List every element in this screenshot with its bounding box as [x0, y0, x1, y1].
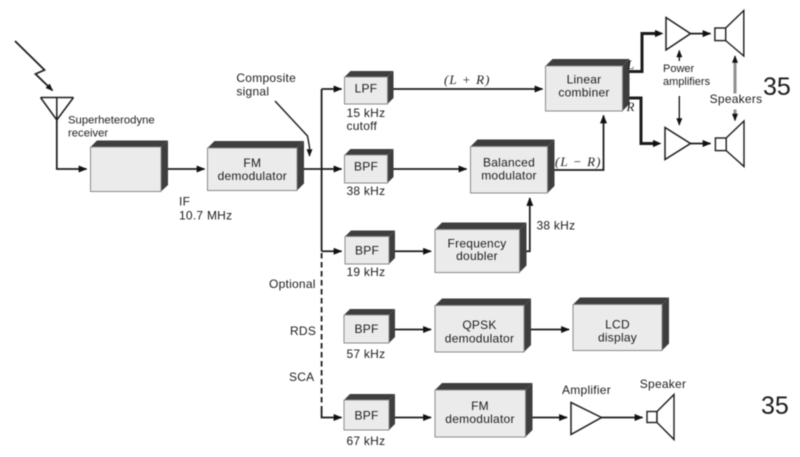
svg-text:demodulator: demodulator	[218, 169, 287, 183]
wire: combiner R output to bottom power amplifier	[630, 98, 654, 144]
svg-text:Balanced: Balanced	[483, 156, 535, 170]
svg-text:LCD: LCD	[605, 318, 630, 332]
wire: combiner L output to top power amplifier	[630, 34, 656, 72]
wire: composite bus vertical (solid part)	[321, 89, 323, 251]
svg-text:SCA: SCA	[289, 370, 314, 384]
arrowhead: L into top amp	[655, 30, 664, 37]
block: balanced modulator	[471, 140, 555, 194]
svg-text:35: 35	[763, 73, 791, 101]
wire: FM demodulator to BPF 38 kHz (through bus junction)	[304, 168, 342, 170]
svg-text:(L − R): (L − R)	[555, 154, 602, 169]
pointer: down arrow to bottom amplifier	[678, 96, 680, 125]
wire: bus to LPF	[322, 88, 342, 90]
speaker SCA	[647, 395, 674, 440]
svg-text:15 kHz: 15 kHz	[347, 106, 386, 120]
svg-text:Speaker: Speaker	[640, 377, 686, 391]
wire: bus to BPF 19 kHz	[322, 250, 342, 252]
svg-text:38 kHz: 38 kHz	[537, 219, 576, 233]
svg-text:10.7 MHz: 10.7 MHz	[179, 209, 232, 223]
wire: receiver to FM demodulator	[168, 168, 205, 170]
block: BPF 38 kHz	[345, 149, 394, 183]
arrowhead: R into bottom amp	[653, 140, 662, 147]
svg-text:35: 35	[761, 392, 789, 420]
svg-text:FM: FM	[471, 399, 489, 413]
wire: top amp to top speaker	[691, 33, 711, 35]
svg-text:Linear: Linear	[567, 73, 602, 87]
svg-text:signal: signal	[236, 85, 269, 99]
block: QPSK demodulator	[435, 299, 531, 353]
svg-text:RDS: RDS	[290, 324, 316, 338]
svg-text:Superheterodyne: Superheterodyne	[68, 115, 155, 127]
power amplifier bottom (triangle)	[665, 128, 691, 160]
block: BPF 67 kHz	[344, 394, 395, 430]
wire: LPF to linear combiner (L + R)	[394, 88, 543, 90]
wire: BPF 57 kHz to QPSK demodulator	[395, 329, 431, 331]
block: FM demodulator U1	[208, 141, 305, 191]
block: SCA FM demodulator	[435, 383, 533, 437]
svg-text:doubler: doubler	[456, 249, 498, 263]
power amplifier top (triangle)	[666, 18, 691, 51]
svg-text:19 kHz: 19 kHz	[347, 265, 386, 279]
speaker top	[715, 11, 744, 57]
svg-text:QPSK: QPSK	[462, 318, 496, 332]
svg-text:BPF: BPF	[355, 244, 379, 258]
block: LCD display	[573, 298, 669, 351]
pointer: composite signal callout arrow	[275, 101, 310, 156]
wire: dashed bus arrow into BPF 67 kHz	[330, 417, 342, 419]
wire: antenna to receiver	[57, 120, 87, 169]
svg-text:FM: FM	[243, 156, 261, 170]
wire: optional dashed bus	[321, 253, 323, 411]
svg-text:BPF: BPF	[354, 409, 378, 423]
block: linear combiner	[546, 59, 630, 111]
block: LPF 15 kHz	[345, 71, 394, 104]
svg-text:demodulator: demodulator	[445, 332, 514, 346]
block: frequency doubler	[435, 223, 527, 273]
svg-text:57 kHz: 57 kHz	[347, 347, 386, 361]
block: BPF 57 kHz	[344, 309, 395, 343]
svg-text:IF: IF	[179, 195, 190, 209]
svg-text:Amplifier: Amplifier	[562, 383, 611, 397]
svg-text:display: display	[598, 331, 637, 345]
svg-text:demodulator: demodulator	[445, 412, 514, 426]
wire: bottom amp to bottom speaker	[691, 143, 711, 145]
svg-text:BPF: BPF	[354, 322, 378, 336]
wire: QPSK demodulator to LCD display	[531, 329, 569, 331]
wire: BPF 38 kHz to balanced modulator	[394, 168, 467, 170]
svg-text:amplifiers: amplifiers	[663, 76, 711, 88]
block: BPF 19 kHz	[345, 231, 395, 265]
svg-text:R: R	[626, 99, 636, 114]
svg-text:38 kHz: 38 kHz	[347, 184, 386, 198]
svg-text:LPF: LPF	[355, 82, 378, 96]
wire: amplifier to SCA speaker	[602, 417, 643, 419]
wire: SCA FM demodulator to amplifier	[533, 417, 568, 419]
wire: BPF 67 kHz to SCA FM demodulator	[395, 417, 431, 419]
svg-text:L: L	[626, 57, 635, 72]
svg-text:Power: Power	[663, 63, 695, 75]
wire: balanced modulator up to linear combiner (L - R)	[555, 116, 604, 171]
incoming RF lightning arrow	[15, 41, 53, 91]
pointer: down arrow to bottom speaker	[734, 110, 737, 116]
wire: BPF 19 kHz to frequency doubler	[395, 250, 431, 252]
svg-text:cutoff: cutoff	[347, 119, 378, 133]
svg-text:67 kHz: 67 kHz	[347, 434, 386, 448]
antenna	[41, 98, 74, 121]
svg-text:Speakers: Speakers	[710, 92, 763, 106]
wire: frequency doubler 38 kHz up to balanced modulator	[527, 198, 530, 251]
svg-text:combiner: combiner	[558, 86, 609, 100]
svg-text:BPF: BPF	[354, 160, 378, 174]
SCA amplifier (triangle)	[571, 403, 602, 435]
svg-text:(L + R): (L + R)	[444, 72, 491, 87]
svg-text:modulator: modulator	[481, 169, 537, 183]
block: superheterodyne receiver (unlabeled box)	[91, 141, 169, 192]
svg-text:Composite: Composite	[236, 71, 296, 85]
speaker bottom	[715, 121, 744, 167]
svg-text:receiver: receiver	[68, 128, 108, 140]
pointer: up arrow to top amplifier	[678, 51, 680, 62]
svg-text:Optional: Optional	[269, 277, 316, 291]
pointer: up arrow to top speaker	[734, 59, 737, 94]
